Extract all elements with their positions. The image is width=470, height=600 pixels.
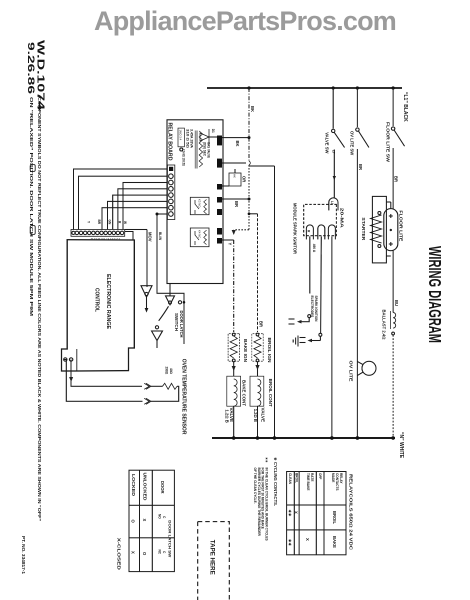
svg-text:490 Ω: 490 Ω — [312, 244, 316, 253]
wire bake chain from board — [233, 240, 235, 332]
svg-text:✳ CYCLING CONTACTS.: ✳ CYCLING CONTACTS. — [273, 457, 278, 506]
component starter for floor lite — [372, 196, 386, 263]
node L1-ovlite junction — [356, 86, 359, 89]
svg-text:GAS VALVE: GAS VALVE — [207, 142, 211, 158]
wire sensor top loop — [151, 386, 179, 401]
wire E2 drop — [222, 162, 246, 164]
svg-text:SWITCH: SWITCH — [174, 313, 179, 331]
symbol inline latch box2 — [30, 226, 35, 235]
wire module out mid — [320, 236, 323, 333]
svg-text:FOR THE FIRST 30 MINUTES AND B: FOR THE FIRST 30 MINUTES AND BAKE — [261, 468, 265, 529]
node L1-floor junction — [392, 86, 395, 89]
svg-text:RELAYCOILS 650Ω 24 VDC: RELAYCOILS 650Ω 24 VDC — [349, 474, 354, 550]
svg-text:1MΩ 3.4: 1MΩ 3.4 — [178, 130, 182, 141]
svg-text:Y: Y — [228, 243, 233, 246]
svg-text:RELAY: RELAY — [339, 473, 343, 484]
svg-text:X: X — [305, 538, 310, 541]
wire valve rung — [332, 88, 334, 129]
switch OV LITE SW — [356, 128, 359, 131]
svg-text:1.2Ω B: 1.2Ω B — [225, 410, 230, 423]
terminal stub E4 — [217, 197, 222, 203]
wire sensor lead lower — [64, 360, 143, 402]
svg-text:DOOR LATCH: DOOR LATCH — [179, 311, 184, 338]
svg-text:LI: LI — [330, 201, 334, 204]
svg-text:LOCKED: LOCKED — [131, 474, 136, 496]
svg-text:Y: Y — [87, 221, 91, 224]
svg-text:LT: LT — [332, 150, 336, 154]
wire bundle pin1 — [74, 169, 168, 230]
connector module terminal 1 — [328, 225, 335, 240]
relay coil broil contacts — [250, 376, 264, 406]
connector ERC terminal strip — [71, 230, 125, 237]
svg-text:BAKE IGN: BAKE IGN — [243, 339, 248, 362]
capacitor C3 block — [229, 173, 241, 186]
switch VALVE SW — [332, 129, 335, 132]
module spark ignitor dashed box — [304, 204, 337, 235]
svg-text:R: R — [307, 230, 311, 233]
svg-text:FLOOR LITE SW: FLOOR LITE SW — [386, 122, 391, 162]
connector triangle MOV — [141, 286, 152, 298]
relay K3 — [190, 197, 209, 214]
svg-text:K3 NO: K3 NO — [198, 199, 202, 208]
svg-text:BR: BR — [358, 164, 363, 170]
svg-text:COMPONENT SYMBOLS DO NOT R: COMPONENT SYMBOLS DO NOT REFLECT TRUE CO… — [37, 97, 42, 521]
svg-text:OR: OR — [242, 176, 247, 182]
wire bundle pin8 door latch feed — [157, 213, 167, 215]
node feed junction — [248, 136, 251, 139]
svg-text:OVEN TEMPERATURE SENSOR: OVEN TEMPERATURE SENSOR — [181, 359, 187, 435]
lamp FLOOR LITE fluorescent tube — [384, 209, 398, 251]
svg-text:ELECTRODES: ELECTRODES — [310, 296, 314, 318]
ERC sensor sub box circles — [69, 358, 72, 361]
svg-text:STARTER: STARTER — [361, 217, 366, 240]
wire L1 rail — [207, 87, 402, 89]
wire bundle pin7 — [102, 208, 167, 230]
svg-text:O: O — [131, 520, 136, 524]
svg-text:W: W — [123, 221, 127, 224]
svg-text:C: C — [162, 516, 166, 519]
svg-text:BK: BK — [250, 106, 255, 112]
terminal stub E5 — [217, 209, 222, 215]
wire cap to board — [222, 185, 229, 187]
svg-text:BR: BR — [259, 321, 264, 327]
wire bundle pin2 — [79, 176, 168, 229]
node N-broil junction — [256, 436, 260, 440]
svg-text:O: O — [142, 552, 147, 556]
svg-text:9.26.86: 9.26.86 — [26, 42, 36, 94]
svg-text:CONTACTS: CONTACTS — [335, 473, 339, 490]
svg-text:CONTROL: CONTROL — [94, 288, 100, 313]
svg-text:C: C — [162, 551, 166, 554]
svg-text:BAKE: BAKE — [332, 536, 337, 548]
svg-text:MADE: MADE — [331, 473, 335, 482]
svg-text:HK: HK — [233, 174, 237, 178]
wire module out top to N — [331, 236, 333, 438]
svg-text:BR: BR — [97, 220, 101, 225]
svg-text:DOOR: DOOR — [160, 481, 165, 494]
wire broil chain branch — [249, 213, 258, 215]
wire sensor upper cont — [151, 385, 163, 387]
svg-text:BK: BK — [235, 141, 240, 147]
svg-text:310 Ω 5Ω: 310 Ω 5Ω — [186, 129, 190, 149]
node N-bake junction — [232, 436, 236, 440]
svg-text:FLOOR LITE: FLOOR LITE — [399, 210, 404, 241]
wire bundle pin3 — [123, 183, 167, 230]
svg-text:TIME BAKE: TIME BAKE — [306, 473, 310, 491]
svg-text:298Ω: 298Ω — [165, 367, 169, 375]
svg-text:BROIL: BROIL — [332, 511, 337, 524]
resistor bake ignitor — [228, 334, 239, 362]
svg-text:BAKE CONT: BAKE CONT — [242, 380, 247, 406]
wire floor rung to N — [392, 335, 394, 438]
switch floor lite SW — [391, 127, 394, 130]
wire bundle pin6 — [108, 201, 168, 229]
svg-text:BROIL: BROIL — [295, 473, 299, 483]
svg-text:BR: BR — [394, 176, 399, 182]
svg-text:MODULE SPARK IGNITOR: MODULE SPARK IGNITOR — [293, 203, 298, 254]
node BR junction — [248, 198, 251, 201]
wire chain C riser — [249, 165, 275, 167]
inductor ballast coil — [393, 313, 396, 329]
svg-text:BURNER CYCLES DURING THE REMAI: BURNER CYCLES DURING THE REMAINDER — [257, 468, 261, 537]
svg-text:BROIL CONT: BROIL CONT — [268, 379, 273, 407]
wire bundle pin5 — [113, 195, 168, 229]
door latch table — [129, 470, 174, 571]
ground burner ground — [293, 336, 298, 347]
electrode gap right — [300, 338, 306, 343]
svg-text:BALLAST 2.4Ω: BALLAST 2.4Ω — [382, 310, 387, 340]
svg-text:BL/W: BL/W — [158, 232, 162, 240]
svg-text:D1: D1 — [211, 129, 215, 133]
relay K4 — [190, 228, 209, 247]
svg-text:MOV: MOV — [148, 232, 153, 242]
svg-text:NO: NO — [158, 514, 162, 519]
junction arrow valve rung — [333, 176, 336, 180]
wire L1 to relay board dashed — [248, 88, 250, 138]
wire broil mid — [257, 362, 259, 376]
electrode gap left — [289, 319, 295, 324]
node electrode circle — [308, 315, 311, 318]
node door latch NO contact — [183, 301, 186, 304]
switch door latch blade — [159, 306, 169, 321]
connector LI terminal — [329, 198, 338, 211]
svg-text:ELECTRONIC RANGE: ELECTRONIC RANGE — [105, 274, 111, 329]
node N-floor junction — [391, 436, 395, 440]
svg-text:GN: GN — [107, 220, 111, 225]
svg-text:BROIL IGN: BROIL IGN — [267, 338, 272, 363]
terminal stub E2 — [217, 159, 222, 168]
svg-text:X-CLOSED: X-CLOSED — [117, 538, 122, 570]
wire door latch line — [157, 214, 184, 344]
svg-text:✳✳: ✳✳ — [288, 510, 293, 518]
wire door latch from board — [169, 284, 171, 296]
wire floor rung to ballast — [392, 251, 394, 313]
diode D1 — [200, 129, 209, 145]
svg-text:OF THE CLEAN CYCLE.: OF THE CLEAN CYCLE. — [253, 468, 257, 504]
svg-text:OV LITE: OV LITE — [349, 361, 354, 382]
node door latch junction — [156, 213, 159, 216]
connector module terminal 3 — [306, 225, 313, 240]
svg-text:IN THE CLEAN CYCLE BROIL BURNE: IN THE CLEAN CYCLE BROIL BURNER CYCLES — [265, 468, 269, 541]
svg-text:K4 NC: K4 NC — [198, 230, 202, 238]
node L1-valve junction — [332, 86, 335, 89]
svg-text:NC: NC — [158, 550, 162, 555]
node L1-relayboard junction — [247, 86, 250, 89]
svg-text:✳✳: ✳✳ — [288, 539, 293, 547]
wire floor rung cont — [392, 148, 394, 209]
sensor connector chevron upper — [144, 383, 151, 389]
relay coil bake contacts — [227, 376, 241, 406]
svg-text:X: X — [131, 551, 136, 554]
svg-text:ON “RELAXED” POSITION.: ON “RELAXED” POSITION. DOOR LATCH SW MOD… — [29, 97, 34, 316]
svg-text:X: X — [294, 511, 299, 514]
wire floor lite rung — [392, 88, 394, 126]
svg-text:TAPE HERE: TAPE HERE — [209, 540, 216, 575]
wire ov lite rung — [356, 88, 358, 127]
node N-ovlite junction — [356, 436, 360, 440]
wire dashed rail cont with connector jog — [248, 138, 250, 161]
lamp OV LITE — [362, 361, 376, 375]
component MOV block — [178, 128, 184, 147]
terminal stub E1 — [217, 136, 222, 146]
wire valve rung cont — [333, 150, 335, 198]
svg-text:RATE: RATE — [310, 473, 314, 481]
svg-text:RELAY BOARD: RELAY BOARD — [167, 123, 173, 161]
connector triangle door latch right — [152, 331, 163, 341]
resistor broil ignitor — [252, 334, 263, 362]
wire broil to N — [257, 406, 259, 438]
svg-text:(DSI) SEC: (DSI) SEC — [203, 142, 207, 157]
wire ov rung cont — [356, 149, 358, 361]
node ballast end — [392, 332, 395, 335]
terminal stub E3 — [217, 184, 222, 190]
svg-text:“L1” BLACK: “L1” BLACK — [402, 92, 408, 122]
svg-text:OV LITE SW: OV LITE SW — [350, 131, 355, 155]
svg-text:3.45A 28VA: 3.45A 28VA — [190, 129, 194, 149]
wire MOV line — [146, 230, 148, 288]
svg-text:X: X — [142, 519, 147, 522]
sensor connector chevron lower — [144, 398, 151, 404]
wire sensor lead upper — [71, 360, 142, 387]
svg-text:CLEAN: CLEAN — [288, 473, 292, 485]
svg-text:SPARK IGNITION: SPARK IGNITION — [314, 296, 318, 323]
wire bake to N — [233, 406, 235, 438]
connector relay board header — [167, 165, 174, 220]
transformer T1 windings — [199, 131, 202, 167]
svg-text:PT. NO. 334817-1: PT. NO. 334817-1 — [20, 536, 26, 574]
wire igniter feed to N — [274, 166, 276, 438]
svg-text:“N” WHITE: “N” WHITE — [398, 432, 404, 459]
wire bake mid — [233, 362, 235, 376]
node N-return junction — [273, 436, 277, 440]
relay board box — [167, 120, 223, 284]
relay contacts table — [287, 472, 346, 555]
svg-text:BR: BR — [234, 201, 239, 207]
svg-text:DOOR LATCH SW: DOOR LATCH SW — [168, 520, 172, 557]
svg-text:1 2 3 4 5 6 7 8 9 10 11 12: 1 2 3 4 5 6 7 8 9 10 11 12 — [90, 237, 120, 241]
wire module out bottom — [309, 236, 311, 293]
terminal stub E7 — [217, 238, 222, 244]
arrow sensor lead — [69, 377, 73, 382]
wire BR drop to E4 — [222, 198, 249, 200]
tape here dashed box — [198, 522, 230, 600]
svg-text:WIRING DIAGRAM: WIRING DIAGRAM — [425, 246, 445, 343]
svg-text:7.6-9Ω 103.5Ω: 7.6-9Ω 103.5Ω — [182, 149, 186, 166]
wire ov rung to N — [356, 361, 358, 438]
svg-text:BU: BU — [394, 300, 399, 306]
wire N rail — [212, 437, 395, 439]
svg-text:OFF: OFF — [318, 473, 322, 479]
svg-text:VALVE: VALVE — [260, 408, 265, 423]
electronic range control box — [62, 240, 135, 371]
wire bundle pin4 — [118, 189, 168, 230]
symbol inline latch box1 — [30, 165, 35, 172]
svg-text:✳✳: ✳✳ — [265, 457, 269, 463]
svg-text:20-MA: 20-MA — [340, 208, 345, 228]
connector module terminal 2 — [318, 225, 325, 240]
connector triangle door latch common — [166, 296, 175, 305]
svg-text:44Ω: 44Ω — [169, 368, 173, 375]
svg-text:UNLOCKED: UNLOCKED — [143, 473, 148, 501]
resistor oven sensor element — [163, 383, 178, 389]
svg-text:VALVE SW: VALVE SW — [325, 132, 330, 153]
wire feed drop to E1 — [222, 137, 249, 139]
terminal stub E6 — [217, 228, 222, 235]
